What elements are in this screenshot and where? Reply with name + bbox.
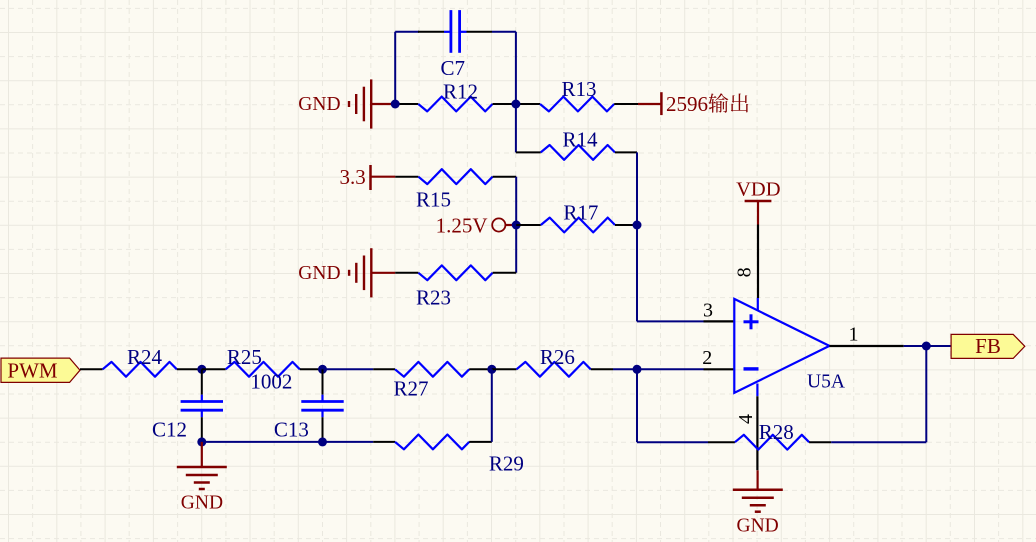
svg-text:GND: GND xyxy=(737,516,779,537)
svg-text:R24: R24 xyxy=(127,345,163,369)
wire C7 left xyxy=(395,32,419,104)
pin 1 xyxy=(829,345,903,347)
resistor R15 xyxy=(395,169,516,184)
svg-text:R27: R27 xyxy=(394,377,429,401)
resistor R12 xyxy=(395,97,516,112)
svg-text:R14: R14 xyxy=(563,128,599,152)
resistor R27 xyxy=(373,362,492,377)
svg-text:U5A: U5A xyxy=(807,372,845,393)
ground GND4 bottom right xyxy=(733,470,783,511)
wire pin2 branch to R28 xyxy=(637,441,708,443)
junction at pin2 branch xyxy=(633,365,642,374)
svg-text:3.3: 3.3 xyxy=(340,165,366,189)
pin 3 xyxy=(704,320,735,322)
junction at GND1/R12 xyxy=(391,100,400,109)
wire R14 to noninverting input xyxy=(636,152,638,321)
wire R29 up xyxy=(491,369,493,442)
port FB xyxy=(951,334,1025,358)
junction at R12/R13/C7 xyxy=(511,100,520,109)
svg-text:1.25V: 1.25V xyxy=(436,214,488,238)
junction at FB branch xyxy=(922,342,931,351)
power port 1.25V xyxy=(492,218,516,231)
resistor R24 xyxy=(80,362,202,377)
wire R15 to 1.25V node xyxy=(515,177,517,273)
svg-text:GND: GND xyxy=(298,263,340,284)
wire bottom rail xyxy=(202,441,373,443)
pin 8 xyxy=(757,225,759,311)
wire C7 right xyxy=(492,32,516,153)
svg-text:FB: FB xyxy=(975,334,1001,358)
svg-text:2: 2 xyxy=(702,347,712,369)
svg-text:PWM: PWM xyxy=(7,359,58,383)
pin 4 xyxy=(756,384,758,471)
junction at R17/R14 branch xyxy=(633,221,642,230)
svg-text:C12: C12 xyxy=(152,418,187,442)
wire R28 to FB branch xyxy=(831,441,926,443)
svg-text:GND: GND xyxy=(298,94,340,115)
svg-text:VDD: VDD xyxy=(736,179,780,201)
junction at C13 bottom xyxy=(318,437,327,446)
svg-text:R25: R25 xyxy=(227,345,262,369)
ground GND1 xyxy=(349,79,395,128)
junction at C12 bottom xyxy=(197,437,206,446)
svg-text:C13: C13 xyxy=(274,418,309,442)
svg-text:R17: R17 xyxy=(563,201,598,225)
ground GND3 bottom left xyxy=(177,442,227,489)
wire C13 to R27 xyxy=(323,368,374,370)
wire inverting branch down xyxy=(636,369,638,442)
resistor R14 xyxy=(516,145,637,160)
resistor R25 xyxy=(202,362,323,377)
resistor R23 xyxy=(395,265,516,280)
resistor R26 xyxy=(492,362,613,377)
wire FB branch down xyxy=(925,346,927,442)
junction at 1.25V node xyxy=(512,221,521,230)
svg-text:1: 1 xyxy=(849,324,859,346)
power port VDD xyxy=(745,201,772,225)
svg-text:R29: R29 xyxy=(489,452,524,476)
op-amp U5A xyxy=(734,299,829,393)
svg-text:R12: R12 xyxy=(443,80,478,104)
svg-text:R28: R28 xyxy=(759,420,794,444)
capacitor C12 xyxy=(181,369,223,442)
svg-text:1002: 1002 xyxy=(250,370,292,394)
svg-text:R23: R23 xyxy=(416,286,451,310)
svg-text:R26: R26 xyxy=(540,345,575,369)
svg-text:GND: GND xyxy=(181,493,223,514)
resistor R28 xyxy=(708,435,831,450)
pin 2 xyxy=(704,368,735,370)
power port 2596 output xyxy=(638,92,661,115)
svg-text:R13: R13 xyxy=(562,77,597,101)
svg-text:2596: 2596 xyxy=(666,92,708,116)
ground GND2 xyxy=(349,248,395,297)
junction at R25/C13 xyxy=(318,365,327,374)
capacitor C13 xyxy=(301,369,343,442)
wire to pin 2 xyxy=(613,368,704,370)
wire output to FB xyxy=(904,345,951,347)
junction at R27/R26/R29 xyxy=(487,365,496,374)
wire to pin 3 xyxy=(637,320,704,322)
svg-text:C7: C7 xyxy=(441,56,466,80)
svg-text:4: 4 xyxy=(735,414,757,424)
port PWM xyxy=(1,358,80,382)
svg-text:R15: R15 xyxy=(416,188,451,212)
resistor R13 xyxy=(516,97,638,112)
svg-text:8: 8 xyxy=(734,267,756,277)
resistor R29 xyxy=(373,435,492,450)
label 2596输出 xyxy=(666,92,748,116)
svg-text:3: 3 xyxy=(703,300,713,322)
resistor R17 xyxy=(516,218,637,233)
capacitor C7 xyxy=(418,10,492,53)
power port 3.3 xyxy=(371,165,396,190)
junction at R24/R25/C12 xyxy=(197,365,206,374)
